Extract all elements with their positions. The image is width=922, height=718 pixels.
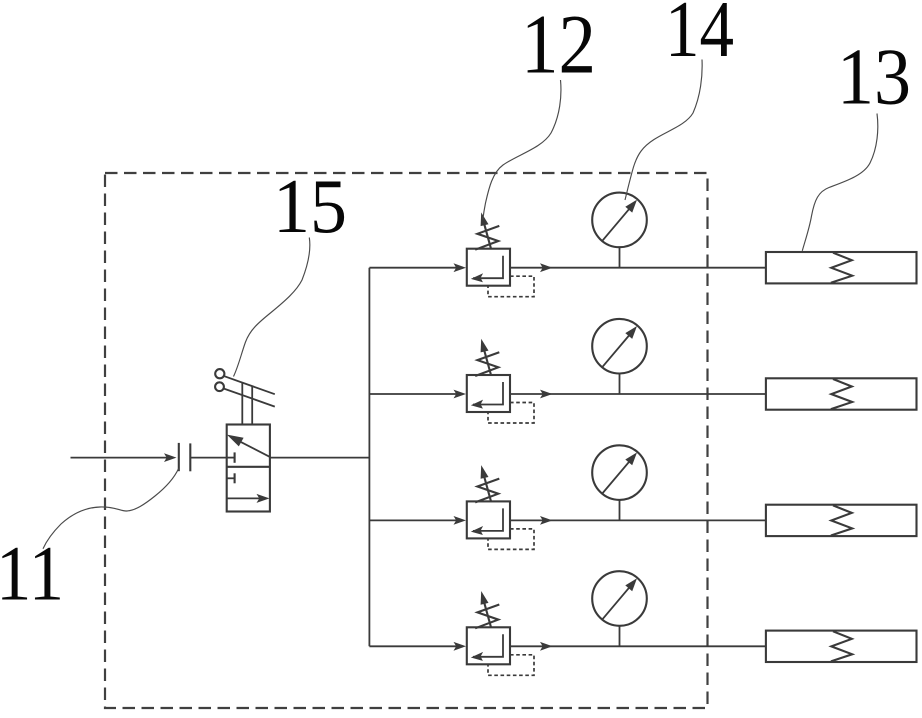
svg-text:13: 13 <box>837 34 911 122</box>
svg-text:11: 11 <box>0 530 64 617</box>
svg-text:12: 12 <box>521 0 596 92</box>
svg-text:15: 15 <box>273 163 347 249</box>
svg-text:14: 14 <box>665 0 734 74</box>
